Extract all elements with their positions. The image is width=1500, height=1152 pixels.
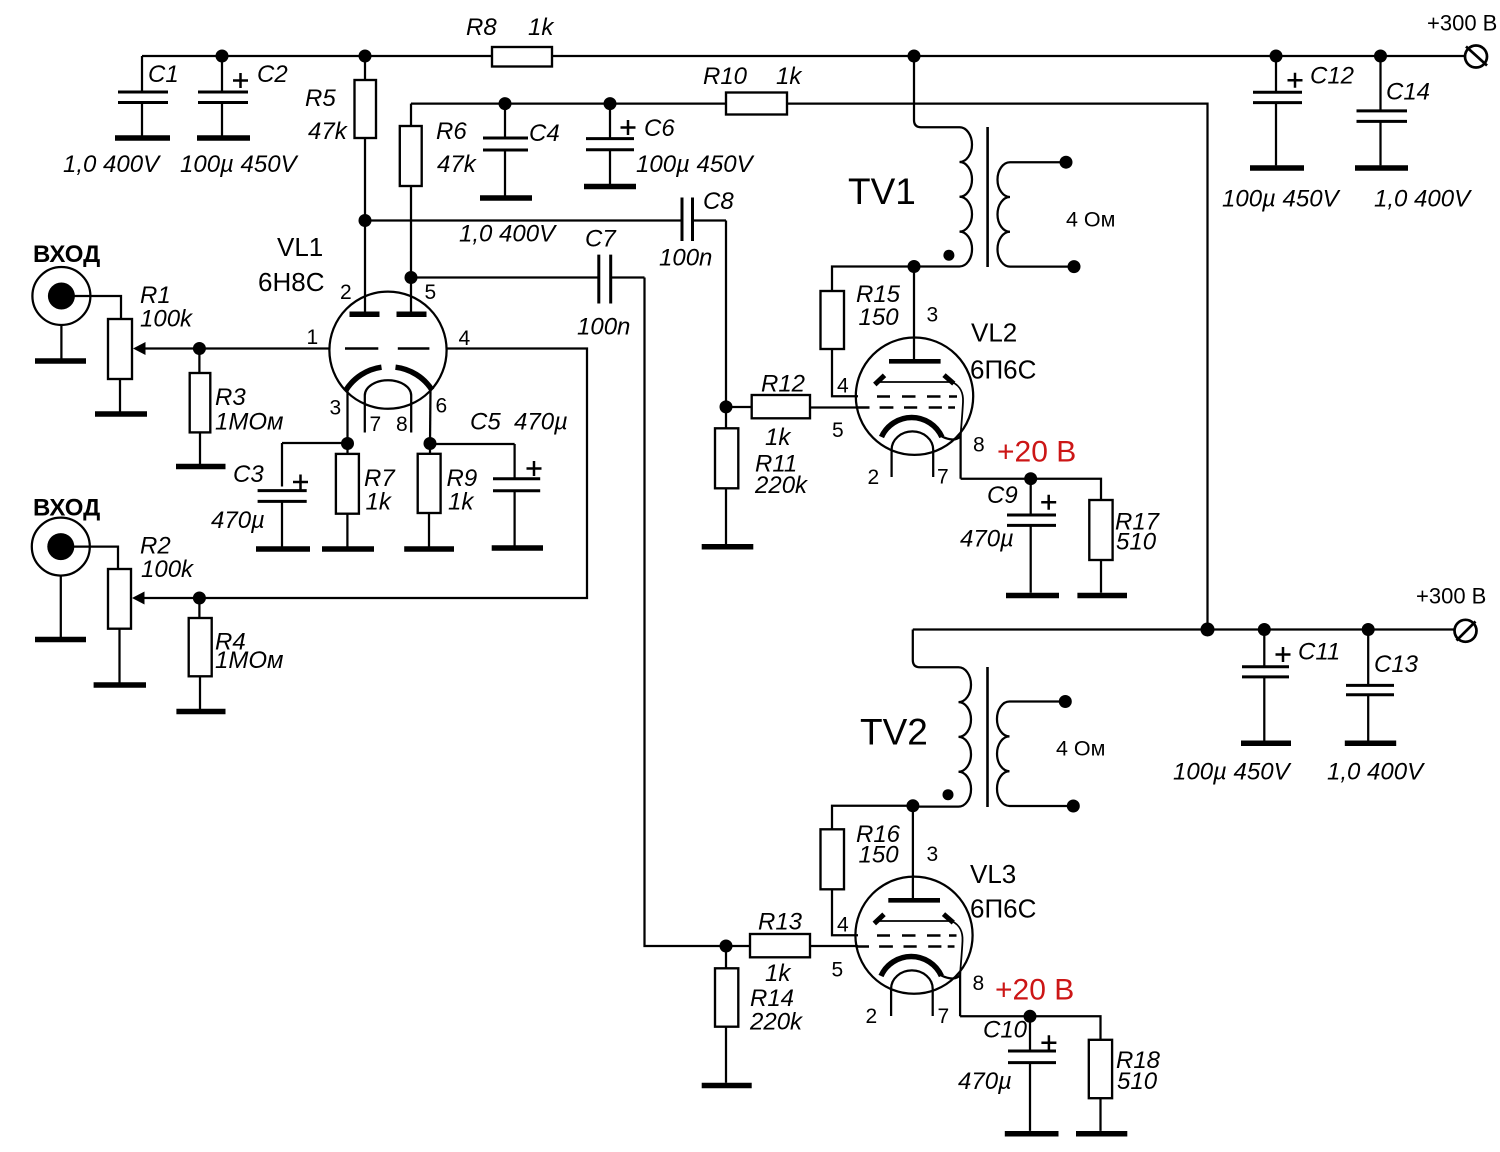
wire C8 down to R12 node: [725, 221, 727, 407]
ground C12: [1250, 165, 1304, 171]
svg-text:ВХОД: ВХОД: [33, 241, 100, 268]
ground C4: [480, 195, 532, 201]
svg-text:1,0 400V: 1,0 400V: [459, 221, 557, 248]
svg-text:TV2: TV2: [860, 712, 928, 753]
node TV2 primary bottom: [906, 799, 919, 812]
capacitor C4: [483, 104, 560, 196]
capacitor C11 100u: [1242, 630, 1340, 741]
node R4 tap: [193, 592, 206, 605]
VL2 anode bar: [889, 359, 941, 364]
node C13 top: [1362, 623, 1375, 636]
capacitor C8 100n: [659, 188, 734, 272]
wire top +300V rail right segment: [552, 55, 1466, 57]
svg-text:1МОм: 1МОм: [215, 647, 283, 674]
svg-text:1МОм: 1МОм: [215, 409, 283, 436]
svg-text:7: 7: [938, 1005, 950, 1028]
wire pin3 to C3: [282, 442, 348, 444]
ground C14: [1355, 165, 1408, 171]
VL2 grid2 dashed: [877, 395, 957, 397]
capacitor C13 1,0: [1346, 630, 1419, 741]
node R12 R11 C8: [720, 400, 733, 413]
VL3 anode bar: [888, 898, 940, 903]
potentiometer R1 100k: [108, 282, 194, 412]
svg-text:+300 В: +300 В: [1416, 584, 1486, 609]
svg-text:4 Ом: 4 Ом: [1056, 737, 1105, 761]
svg-text:100µ 450V: 100µ 450V: [636, 151, 755, 178]
svg-text:2: 2: [868, 466, 880, 489]
wire VL3 anode pin3: [912, 806, 914, 899]
resistor R11 220k: [715, 407, 809, 544]
svg-text:R3: R3: [215, 384, 246, 411]
capacitor C6: [586, 104, 755, 184]
wire anode1 to C8: [365, 219, 682, 221]
svg-text:470µ: 470µ: [958, 1068, 1012, 1095]
svg-text:100n: 100n: [577, 314, 630, 341]
svg-text:C10: C10: [983, 1017, 1028, 1044]
svg-text:100k: 100k: [140, 306, 194, 333]
svg-text:47k: 47k: [437, 151, 478, 178]
svg-text:3: 3: [330, 397, 342, 420]
svg-text:C7: C7: [585, 226, 617, 253]
ground connector 1: [35, 325, 86, 361]
ground R4: [176, 709, 225, 715]
resistor R15 150: [821, 267, 915, 397]
capacitor C9 470u: [960, 479, 1056, 593]
ground C5: [492, 545, 543, 551]
node C12 top: [1270, 50, 1283, 63]
resistor R18 510: [1030, 1016, 1161, 1131]
wire grid1 left with wiper arrow: [144, 347, 329, 349]
svg-text:150: 150: [859, 842, 900, 869]
TV2 secondary terminal bottom: [1067, 800, 1080, 813]
VL3 cathode tail to pin8: [941, 975, 960, 1016]
svg-text:8: 8: [973, 434, 985, 457]
svg-text:1k: 1k: [765, 960, 792, 987]
svg-text:VL2: VL2: [971, 318, 1017, 348]
svg-text:C1: C1: [148, 61, 179, 88]
node R3 tap: [193, 342, 206, 355]
wire VL2 pin8 cathode out: [961, 478, 1031, 480]
ground R11: [702, 544, 754, 550]
svg-text:1k: 1k: [366, 489, 393, 516]
svg-text:470µ: 470µ: [211, 507, 265, 534]
tube VL3 6P6S envelope: [855, 877, 972, 994]
resistor R8 1k: [466, 14, 555, 67]
ground connector 2: [35, 576, 86, 640]
ground R2: [94, 682, 146, 688]
capacitor C5 470u: [470, 409, 568, 546]
transformer TV2 secondary: [997, 702, 1069, 807]
svg-text:2: 2: [340, 281, 352, 304]
svg-text:R10: R10: [703, 63, 748, 90]
wire VL3 pin8 cathode out: [960, 1015, 1030, 1017]
node R5 bottom / C8 tap: [359, 214, 372, 227]
VL1 heater: [365, 380, 411, 432]
wire C7 down to R13 node: [645, 278, 751, 947]
ground R14: [702, 1083, 752, 1089]
svg-text:8: 8: [973, 972, 985, 995]
ground R18: [1076, 1131, 1127, 1137]
VL2 beam plates: [875, 375, 963, 436]
capacitor C10 470u: [958, 1016, 1056, 1131]
svg-text:8: 8: [396, 413, 408, 436]
VL1 pin6 leg: [429, 389, 432, 444]
svg-text:6П6С: 6П6С: [970, 894, 1036, 924]
TV1 secondary terminal top: [1060, 156, 1073, 169]
svg-text:220k: 220k: [754, 472, 809, 499]
svg-text:VL3: VL3: [970, 859, 1016, 889]
svg-text:100µ 450V: 100µ 450V: [180, 151, 299, 178]
transformer TV1 primary: [914, 56, 972, 267]
svg-text:4 Ом: 4 Ом: [1066, 208, 1115, 232]
VL3 grid2 dashed: [877, 934, 957, 936]
resistor R5 47k: [305, 56, 376, 312]
VL1 cathode arcs: [346, 367, 432, 390]
svg-text:4: 4: [459, 327, 471, 350]
svg-text:+20 В: +20 В: [995, 974, 1074, 1007]
svg-text:5: 5: [832, 419, 844, 442]
svg-text:100µ 450V: 100µ 450V: [1222, 186, 1341, 213]
svg-text:100µ 450V: 100µ 450V: [1173, 759, 1292, 786]
ground R9: [404, 546, 454, 552]
svg-text:C11: C11: [1298, 639, 1340, 666]
svg-text:7: 7: [937, 466, 949, 489]
svg-text:470µ: 470µ: [514, 409, 568, 436]
wire grid2 feedback loop pin4: [143, 349, 587, 599]
wire pin6 to C5: [430, 443, 515, 445]
ground C13: [1345, 741, 1396, 747]
VL3 cathode arc: [881, 956, 941, 976]
svg-text:47k: 47k: [308, 118, 349, 145]
svg-text:C8: C8: [703, 188, 734, 215]
svg-text:4: 4: [837, 375, 849, 398]
VL3 heater: [891, 970, 933, 1016]
wire top +300V rail left segment: [142, 55, 492, 57]
connector input 1: [32, 267, 121, 325]
svg-text:5: 5: [832, 959, 844, 982]
svg-text:R13: R13: [758, 909, 803, 936]
ground C11: [1241, 741, 1291, 747]
tube VL2 6P6S envelope: [856, 338, 973, 455]
svg-text:150: 150: [859, 304, 900, 331]
svg-text:C14: C14: [1386, 79, 1430, 106]
node VL1 pin6: [424, 437, 437, 450]
svg-text:R8: R8: [466, 14, 497, 41]
svg-text:6: 6: [436, 395, 448, 418]
svg-text:1,0 400V: 1,0 400V: [1327, 759, 1425, 786]
capacitor C12 100u: [1253, 56, 1354, 165]
resistor R13 1k: [750, 909, 858, 988]
capacitor C3 470u: [211, 443, 308, 547]
TV1 phase dot: [943, 250, 954, 261]
svg-text:510: 510: [1117, 1068, 1158, 1095]
svg-text:1: 1: [307, 326, 319, 349]
transformer TV1 secondary: [998, 162, 1071, 266]
svg-text:100n: 100n: [659, 245, 712, 272]
TV1 secondary terminal bottom: [1068, 260, 1081, 273]
TV2 secondary terminal top: [1059, 695, 1072, 708]
capacitor C1: [118, 56, 179, 136]
capacitor C2: [198, 56, 288, 136]
wire VL1 pin5 to C7: [411, 276, 599, 278]
svg-text:2: 2: [866, 1005, 878, 1028]
terminal +300V bottom: [1455, 620, 1477, 642]
svg-text:1k: 1k: [528, 14, 555, 41]
svg-text:1,0 400V: 1,0 400V: [63, 151, 161, 178]
terminal +300V top: [1465, 46, 1487, 68]
svg-text:3: 3: [927, 304, 939, 327]
svg-text:1,0 400V: 1,0 400V: [1374, 186, 1472, 213]
node C10 R18: [1024, 1010, 1037, 1023]
ground R17: [1077, 593, 1127, 599]
svg-text:C12: C12: [1310, 63, 1354, 90]
node C9 R17: [1024, 472, 1037, 485]
node feed from R10: [1201, 623, 1215, 637]
node C2 top: [216, 50, 229, 63]
ground R7: [322, 546, 374, 552]
svg-text:VL1: VL1: [277, 232, 323, 262]
VL1 grid dashed: [345, 347, 429, 349]
resistor R12 1k: [726, 371, 858, 452]
transformer TV2 primary: [913, 630, 971, 807]
resistor R14 220k: [715, 946, 804, 1083]
svg-text:1k: 1k: [765, 424, 792, 451]
capacitor C7 100n: [577, 226, 645, 341]
VL1 anode bar pin2: [350, 312, 380, 318]
svg-text:C5: C5: [470, 409, 501, 436]
resistor R7 1k: [336, 444, 396, 547]
TV2 core: [986, 667, 989, 807]
svg-text:C9: C9: [987, 482, 1018, 509]
wire lower +300V rail: [913, 628, 1456, 630]
svg-text:C13: C13: [1374, 651, 1419, 678]
svg-text:3: 3: [927, 843, 939, 866]
svg-text:C4: C4: [529, 120, 560, 147]
svg-text:100k: 100k: [141, 556, 195, 583]
svg-text:R12: R12: [761, 371, 805, 398]
svg-text:+20 В: +20 В: [997, 436, 1076, 469]
node VL1 pin3: [341, 437, 354, 450]
VL2 grid1 dashed: [856, 406, 955, 408]
resistor R9 1k: [418, 444, 477, 547]
wire screen supply y=103.6: [411, 102, 726, 104]
VL2 cathode tail to pin8: [942, 436, 961, 479]
ground C10: [1005, 1131, 1059, 1137]
VL1 pin3 leg: [346, 389, 348, 444]
svg-text:220k: 220k: [749, 1009, 804, 1036]
VL3 grid1 dashed: [856, 945, 955, 947]
node R13 R14 C7feed: [720, 940, 733, 953]
ground R1: [95, 411, 147, 417]
ground C9: [1006, 593, 1059, 599]
wire R10 to right vertical feed: [787, 104, 1208, 630]
svg-text:510: 510: [1116, 529, 1157, 556]
connector input 2: [32, 518, 118, 576]
node TV1 supply tap: [908, 50, 921, 63]
TV1 core: [986, 127, 989, 267]
ground C1: [115, 135, 170, 141]
resistor R10 1k: [703, 63, 803, 115]
capacitor C14 1,0: [1357, 56, 1431, 165]
svg-text:C6: C6: [644, 115, 675, 142]
node R5 top: [359, 50, 372, 63]
resistor R3 1MOm: [190, 349, 284, 465]
ground C3: [256, 546, 310, 552]
svg-text:1k: 1k: [776, 63, 803, 90]
svg-text:4: 4: [837, 914, 849, 937]
VL1 anode bar pin5: [397, 312, 427, 318]
ground C6: [584, 184, 636, 190]
svg-text:R6: R6: [436, 118, 467, 145]
node C14 top: [1374, 50, 1387, 63]
svg-text:7: 7: [370, 413, 382, 436]
VL2 cathode arc: [882, 417, 942, 437]
node VL1 pin5 tap: [405, 271, 418, 284]
VL2 heater: [892, 431, 934, 477]
node TV1 primary bottom: [908, 260, 921, 273]
svg-text:5: 5: [425, 281, 437, 304]
resistor R6 47k: [400, 104, 478, 312]
ground R3: [176, 464, 226, 470]
resistor R4 1MOm: [189, 598, 284, 709]
potentiometer R2 100k: [108, 533, 195, 683]
svg-text:TV1: TV1: [848, 171, 916, 212]
node C4 top: [499, 97, 512, 110]
svg-text:+300 В: +300 В: [1427, 11, 1497, 36]
resistor R16 150: [821, 806, 913, 936]
svg-text:1k: 1k: [448, 489, 475, 516]
svg-text:470µ: 470µ: [960, 526, 1014, 553]
node C11 top: [1258, 623, 1271, 636]
TV2 phase dot: [943, 789, 954, 800]
svg-text:C2: C2: [257, 61, 288, 88]
svg-text:C3: C3: [233, 461, 264, 488]
wire VL2 anode pin3: [913, 267, 915, 360]
tube VL1 6N8S envelope: [329, 292, 446, 409]
svg-text:R5: R5: [305, 85, 336, 112]
VL3 beam plates: [874, 914, 962, 975]
resistor R17 510: [1031, 479, 1161, 593]
node C6 top: [604, 97, 617, 110]
svg-text:6Н8С: 6Н8С: [258, 267, 324, 297]
ground C2: [197, 135, 250, 141]
svg-text:6П6С: 6П6С: [970, 355, 1036, 385]
